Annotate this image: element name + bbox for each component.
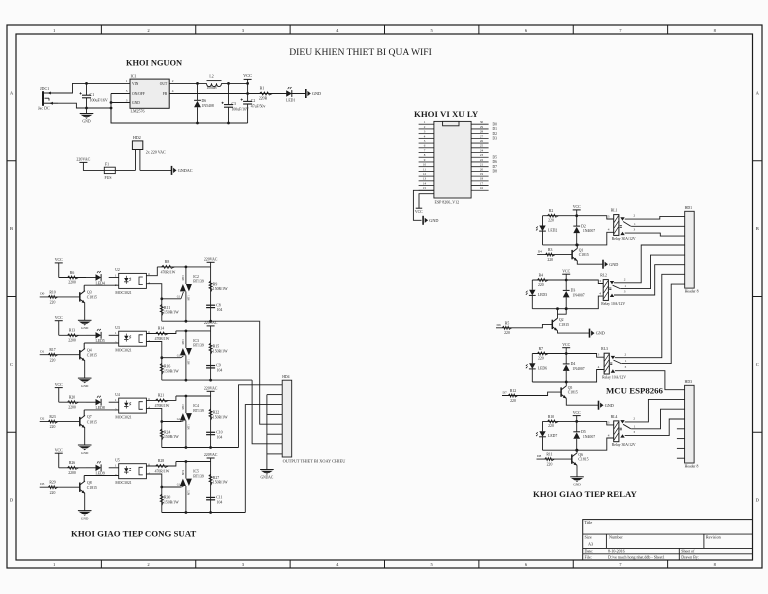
capacitor C2 47uF/50v bbox=[243, 100, 252, 102]
svg-text:C: C bbox=[756, 362, 759, 367]
svg-text:220: 220 bbox=[510, 399, 516, 403]
svg-text:C1815: C1815 bbox=[87, 486, 97, 490]
svg-text:LED4: LED4 bbox=[96, 281, 105, 285]
svg-text:D3: D3 bbox=[493, 137, 498, 141]
resistor R26 2200 bbox=[68, 466, 79, 469]
svg-text:LED6: LED6 bbox=[538, 366, 547, 370]
LED LED3 bbox=[531, 280, 533, 290]
wire RL1 common to HD1 bbox=[631, 225, 685, 227]
svg-text:18: 18 bbox=[480, 177, 484, 181]
optocoupler U3 MOC3021 bbox=[119, 331, 147, 346]
svg-text:D3: D3 bbox=[40, 482, 44, 486]
svg-text:17: 17 bbox=[480, 181, 484, 185]
wire RL2 pin3 to HD1 bbox=[614, 265, 685, 295]
pin 5 bbox=[419, 142, 434, 144]
connector HD3 bbox=[685, 385, 695, 463]
power ground GND bbox=[589, 329, 591, 338]
relay contact pin 3 bbox=[620, 434, 624, 437]
relay armature bbox=[613, 285, 621, 288]
svg-text:D2: D2 bbox=[40, 416, 44, 420]
pin 13 bbox=[419, 180, 434, 182]
svg-text:B: B bbox=[756, 226, 759, 231]
wire input rail bbox=[59, 334, 86, 336]
svg-text:R15: R15 bbox=[213, 345, 219, 349]
svg-text:IC4: IC4 bbox=[193, 404, 199, 408]
transistor Q2 C1815 bbox=[551, 320, 553, 329]
pin 4 bbox=[419, 137, 434, 139]
power ground GND bbox=[78, 377, 92, 379]
svg-text:4: 4 bbox=[172, 89, 174, 93]
svg-text:10: 10 bbox=[423, 163, 427, 167]
svg-text:D:\ve mach hong nhat.ddb - She: D:\ve mach hong nhat.ddb - Sheet1 bbox=[608, 554, 665, 559]
svg-text:GND: GND bbox=[82, 119, 90, 123]
svg-text:15: 15 bbox=[423, 186, 427, 190]
svg-text:VCC: VCC bbox=[243, 73, 252, 78]
svg-text:150R/1W: 150R/1W bbox=[164, 311, 179, 315]
pin 25 bbox=[471, 147, 489, 149]
svg-text:Header 8: Header 8 bbox=[685, 290, 699, 294]
power port VCC bbox=[55, 387, 63, 389]
wire input rail bbox=[59, 467, 86, 469]
svg-text:VCC: VCC bbox=[55, 448, 63, 452]
power ground GND bbox=[570, 476, 584, 478]
svg-text:Q1: Q1 bbox=[579, 248, 584, 252]
diode D6 1N5408 bbox=[197, 83, 199, 100]
pin 2 bbox=[419, 128, 434, 130]
svg-text:D6: D6 bbox=[493, 160, 498, 164]
svg-text:2200: 2200 bbox=[68, 281, 76, 285]
optocoupler U4 MOC3021 bbox=[119, 398, 147, 413]
svg-text:220VAC: 220VAC bbox=[204, 387, 218, 391]
power port VCC bbox=[562, 347, 570, 349]
svg-text:470R/1W: 470R/1W bbox=[155, 404, 170, 408]
svg-text:47uF/50v: 47uF/50v bbox=[251, 104, 266, 108]
capacitor C1 100uF/16V bbox=[86, 83, 88, 95]
pin 24 bbox=[471, 152, 489, 154]
connector JDC1 (Jac DC) bbox=[42, 91, 44, 106]
HD3 stub pins 5-8 bbox=[677, 428, 685, 430]
wire emitter to ground bbox=[558, 331, 590, 334]
svg-text:MOC3021: MOC3021 bbox=[115, 291, 131, 295]
svg-text:D6: D6 bbox=[497, 323, 501, 327]
svg-text:MT1: MT1 bbox=[187, 424, 190, 430]
resistor R30 150R/1W (gate) bbox=[161, 487, 163, 513]
transistor Q7 C1815 bbox=[79, 417, 81, 426]
svg-text:R4: R4 bbox=[539, 273, 544, 277]
svg-text:R17: R17 bbox=[49, 348, 55, 352]
svg-text:BT139: BT139 bbox=[193, 344, 204, 348]
wire emitter down bbox=[84, 493, 86, 510]
svg-text:G1: G1 bbox=[177, 417, 181, 421]
relay coil bottom wire bbox=[532, 296, 603, 309]
svg-text:G1: G1 bbox=[177, 294, 181, 298]
wire triac4 output to HD4 pin3 bbox=[245, 405, 282, 513]
svg-text:IC1: IC1 bbox=[131, 74, 137, 79]
svg-text:14: 14 bbox=[423, 181, 427, 185]
svg-text:MOC3021: MOC3021 bbox=[115, 349, 131, 353]
svg-text:Date:: Date: bbox=[585, 549, 594, 554]
transistor Q6 C1815 bbox=[571, 454, 573, 463]
svg-text:220: 220 bbox=[50, 358, 56, 362]
transistor Q3 C1815 bbox=[79, 292, 81, 301]
svg-text:VCC: VCC bbox=[415, 210, 423, 214]
svg-text:R11: R11 bbox=[546, 453, 552, 457]
svg-text:13: 13 bbox=[423, 177, 427, 181]
pin 30 bbox=[471, 123, 489, 125]
svg-text:R10: R10 bbox=[548, 415, 554, 419]
power ground GNDAC bbox=[171, 166, 173, 175]
svg-text:MT1: MT1 bbox=[187, 359, 190, 365]
capacitor C10 104 bbox=[206, 432, 215, 433]
pin 7 bbox=[419, 152, 434, 154]
svg-text:JDC1: JDC1 bbox=[40, 86, 49, 91]
connector HD2 2x 220 VAC bbox=[132, 141, 142, 150]
svg-text:GND: GND bbox=[605, 403, 614, 408]
svg-text:Size: Size bbox=[585, 534, 592, 539]
pin 8 bbox=[419, 156, 434, 158]
power ground GND under MCU bbox=[422, 216, 424, 225]
wire RL4 pin2 to HD3 bbox=[625, 399, 685, 422]
svg-text:16: 16 bbox=[480, 186, 484, 190]
relay coil bottom wire bbox=[543, 438, 614, 450]
svg-text:1: 1 bbox=[126, 79, 128, 83]
pin 6 bbox=[419, 147, 434, 149]
pin 20 bbox=[471, 170, 489, 172]
pin 12 bbox=[419, 175, 434, 177]
svg-text:MT2: MT2 bbox=[182, 275, 185, 281]
svg-text:220R: 220R bbox=[259, 96, 268, 100]
svg-text:File:: File: bbox=[585, 554, 592, 559]
svg-text:LED1: LED1 bbox=[286, 99, 295, 103]
optocoupler U2 MOC3021 bbox=[119, 273, 147, 288]
svg-text:LED5: LED5 bbox=[96, 339, 105, 343]
wire emitter down bbox=[84, 428, 86, 445]
wire RL3 common to HD1 bbox=[621, 284, 684, 364]
power ground GND after LED1 bbox=[305, 89, 307, 98]
svg-text:1: 1 bbox=[624, 284, 626, 288]
wire opto pin2 to Q collector bbox=[84, 342, 119, 344]
svg-text:LED2: LED2 bbox=[548, 229, 557, 233]
svg-text:C10: C10 bbox=[216, 430, 222, 434]
LED1 bbox=[286, 90, 292, 96]
svg-text:3: 3 bbox=[624, 289, 626, 293]
resistor R27 150R/1W (snubber) bbox=[210, 462, 212, 513]
resistor R12 220 (base) bbox=[502, 392, 561, 395]
wire opto pin2 to Q collector bbox=[84, 284, 119, 286]
wire RL4 common to HD3 bbox=[631, 409, 685, 429]
svg-text:BT139: BT139 bbox=[193, 409, 204, 413]
svg-text:5: 5 bbox=[126, 89, 128, 93]
pin 14 bbox=[419, 185, 434, 187]
resistor R29 220 (base) bbox=[40, 486, 80, 488]
power ground GND bbox=[78, 319, 92, 321]
svg-text:C2: C2 bbox=[251, 99, 256, 103]
svg-text:R22: R22 bbox=[213, 411, 219, 415]
wire collector bbox=[565, 382, 567, 386]
svg-text:MOC3021: MOC3021 bbox=[115, 416, 131, 420]
resistor R4 220 bbox=[537, 279, 548, 282]
svg-text:R2: R2 bbox=[549, 209, 554, 213]
svg-text:3: 3 bbox=[599, 279, 601, 283]
svg-text:U3: U3 bbox=[115, 326, 120, 330]
svg-text:150R/1W: 150R/1W bbox=[213, 287, 228, 291]
svg-text:R20: R20 bbox=[69, 396, 75, 400]
resistor R15 150R/1W (snubber) bbox=[210, 331, 212, 380]
svg-text:D1: D1 bbox=[40, 350, 44, 354]
svg-text:R29: R29 bbox=[49, 481, 55, 485]
pin 17 bbox=[471, 185, 489, 187]
svg-text:20: 20 bbox=[480, 167, 484, 171]
svg-text:1N5408: 1N5408 bbox=[202, 104, 214, 108]
svg-text:26: 26 bbox=[480, 139, 484, 143]
svg-text:BT139: BT139 bbox=[193, 280, 204, 284]
svg-text:2200: 2200 bbox=[68, 471, 76, 475]
svg-text:Drawn By:: Drawn By: bbox=[681, 554, 699, 559]
svg-text:LED3: LED3 bbox=[538, 293, 547, 297]
svg-text:220: 220 bbox=[548, 219, 554, 223]
svg-text:220: 220 bbox=[504, 331, 510, 335]
svg-text:GND: GND bbox=[596, 331, 605, 336]
wire emitter down bbox=[84, 361, 86, 378]
capacitor C9 104 bbox=[206, 365, 215, 366]
svg-text:220: 220 bbox=[50, 491, 56, 495]
svg-text:LED7: LED7 bbox=[548, 434, 557, 438]
svg-text:C11: C11 bbox=[216, 496, 222, 500]
svg-text:GND: GND bbox=[312, 91, 321, 96]
svg-text:220: 220 bbox=[50, 301, 56, 305]
svg-text:LM2576: LM2576 bbox=[131, 109, 145, 114]
svg-text:2: 2 bbox=[172, 79, 174, 83]
pin 19 bbox=[471, 175, 489, 177]
svg-text:D7: D7 bbox=[493, 165, 498, 169]
LED LED9 bbox=[96, 465, 102, 471]
resistor R11 220 (base) bbox=[537, 458, 572, 460]
wire emitter to ground bbox=[566, 398, 598, 405]
diode D2 1N4007 bbox=[576, 216, 578, 226]
svg-text:R13: R13 bbox=[69, 329, 75, 333]
LED LED7 bbox=[542, 421, 544, 431]
wire RL4 pin3 to HD3 bbox=[625, 419, 685, 436]
svg-text:D5: D5 bbox=[493, 155, 498, 159]
svg-text:HD3: HD3 bbox=[685, 380, 692, 384]
wire HD2 to GNDAC bbox=[140, 169, 172, 171]
wire emitter down bbox=[84, 303, 86, 320]
power port VCC bbox=[573, 415, 581, 417]
relay channel 1 top rail wire bbox=[543, 216, 614, 219]
wire bottom rail bbox=[162, 379, 252, 381]
svg-text:C: C bbox=[10, 362, 13, 367]
pin 16 bbox=[471, 189, 489, 191]
svg-text:C1815: C1815 bbox=[87, 354, 97, 358]
svg-text:R8: R8 bbox=[165, 260, 170, 264]
svg-text:C8: C8 bbox=[216, 303, 221, 307]
resistor R20 2200 bbox=[68, 401, 79, 404]
relay contact pin 2 bbox=[610, 281, 614, 284]
svg-text:D4: D4 bbox=[538, 250, 542, 254]
svg-text:IC2: IC2 bbox=[193, 275, 199, 279]
power port VCC bbox=[573, 209, 581, 211]
svg-text:GND: GND bbox=[81, 516, 89, 520]
resistor R11 150R/1W (gate) bbox=[161, 299, 163, 321]
wire pin16 to VCC bbox=[419, 194, 434, 209]
resistor R8 470R/1W bbox=[162, 265, 175, 268]
svg-text:GNDAC: GNDAC bbox=[261, 475, 274, 479]
svg-text:RL2: RL2 bbox=[600, 274, 607, 278]
triac IC2 BT139 bbox=[185, 267, 187, 284]
svg-text:C1: C1 bbox=[90, 92, 95, 97]
svg-text:HD4: HD4 bbox=[282, 375, 289, 379]
power ground GND bbox=[598, 401, 600, 410]
resistor R24 150R/1W (gate) bbox=[161, 422, 163, 448]
svg-text:RL4: RL4 bbox=[611, 415, 618, 419]
transistor Q1 C1815 bbox=[571, 250, 573, 259]
resistor R14 470R/1W bbox=[156, 332, 169, 335]
resistor R28 470R/1W bbox=[156, 465, 169, 468]
svg-text:U5: U5 bbox=[115, 459, 120, 463]
resistor R23 220 (base) bbox=[40, 421, 80, 423]
svg-text:Relay 10A/12V: Relay 10A/12V bbox=[602, 375, 626, 379]
power ground GNDAC bbox=[260, 469, 274, 471]
pin 29 bbox=[471, 128, 489, 130]
svg-text:30: 30 bbox=[480, 120, 484, 124]
svg-text:R16: R16 bbox=[164, 365, 170, 369]
svg-text:MCU ESP8266: MCU ESP8266 bbox=[606, 386, 664, 396]
wire RL2 pin2 to HD1 bbox=[614, 245, 685, 283]
svg-text:29: 29 bbox=[480, 125, 484, 129]
capacitor C8 104 bbox=[206, 305, 215, 306]
svg-text:150R/1W: 150R/1W bbox=[213, 349, 228, 353]
svg-text:OUTPUT THIET BI XOAY CHIEU: OUTPUT THIET BI XOAY CHIEU bbox=[283, 459, 347, 464]
svg-text:MT2: MT2 bbox=[182, 469, 185, 475]
relay channel 3 top rail wire bbox=[532, 354, 604, 358]
svg-text:220: 220 bbox=[538, 283, 544, 287]
svg-text:Q8: Q8 bbox=[87, 481, 92, 485]
resistor R3 220 (base) bbox=[537, 254, 572, 256]
LED LED5 bbox=[96, 332, 102, 338]
wire triac1 output to HD4 pin5 bbox=[259, 321, 282, 424]
svg-text:U2: U2 bbox=[115, 268, 120, 272]
wire emitter to ground bbox=[577, 261, 603, 264]
svg-text:1N4007: 1N4007 bbox=[572, 367, 584, 371]
svg-text:100uH: 100uH bbox=[206, 86, 217, 90]
svg-text:Relay 30A/12V: Relay 30A/12V bbox=[612, 237, 636, 241]
svg-text:D6: D6 bbox=[202, 99, 207, 103]
pin 27 bbox=[471, 137, 489, 139]
svg-text:Number: Number bbox=[609, 534, 623, 539]
wire opto pin4 to gate bbox=[146, 408, 181, 421]
svg-text:VIN: VIN bbox=[132, 82, 139, 86]
pin 23 bbox=[471, 156, 489, 158]
svg-text:G1: G1 bbox=[177, 483, 181, 487]
wire input rail bbox=[59, 401, 86, 403]
svg-text:R27: R27 bbox=[213, 476, 219, 480]
relay RL2 bbox=[603, 280, 608, 301]
pin 21 bbox=[471, 166, 489, 168]
svg-text:KHOI GIAO TIEP RELAY: KHOI GIAO TIEP RELAY bbox=[533, 489, 638, 499]
svg-text:104: 104 bbox=[217, 308, 223, 312]
svg-text:D2: D2 bbox=[493, 132, 498, 136]
svg-text:OUT: OUT bbox=[160, 82, 168, 86]
wire emitter to ground bbox=[576, 465, 578, 477]
svg-text:100uF/16V: 100uF/16V bbox=[90, 98, 108, 103]
power port VCC bbox=[55, 452, 63, 454]
svg-text:VCC: VCC bbox=[562, 269, 570, 273]
svg-text:3: 3 bbox=[634, 228, 636, 232]
svg-text:B: B bbox=[10, 226, 13, 231]
svg-text:G1: G1 bbox=[177, 353, 181, 357]
svg-text:F1: F1 bbox=[105, 163, 109, 167]
svg-text:470R/1W: 470R/1W bbox=[161, 270, 176, 274]
wire collector bbox=[576, 450, 578, 453]
relay RL1 bbox=[614, 215, 619, 236]
svg-text:Q6: Q6 bbox=[578, 453, 583, 457]
power port VCC bbox=[55, 320, 63, 322]
relay channel 2 top rail wire bbox=[532, 280, 603, 284]
LED LED6 bbox=[531, 354, 533, 364]
triac IC3 BT139 bbox=[185, 331, 187, 348]
svg-text:R21: R21 bbox=[158, 394, 164, 398]
wire FB rail bbox=[169, 93, 306, 95]
svg-text:3: 3 bbox=[608, 214, 610, 218]
svg-text:23: 23 bbox=[480, 153, 484, 157]
wire RL1 pin2 to HD1 bbox=[625, 216, 685, 219]
relay armature bbox=[614, 360, 622, 364]
resistor R7 220 bbox=[537, 352, 548, 355]
svg-text:D5: D5 bbox=[581, 430, 586, 434]
MCU U1 ESP 8266_V12 bbox=[434, 121, 471, 198]
svg-text:104: 104 bbox=[217, 369, 223, 373]
wire JDC1 pin1 to VIN bbox=[51, 83, 130, 93]
wire opto pin4 to gate bbox=[146, 474, 181, 487]
svg-text:KHOI NGUON: KHOI NGUON bbox=[126, 59, 182, 68]
relay contact pin 3 bbox=[620, 232, 624, 235]
diode D4 1N4007 bbox=[565, 354, 567, 364]
svg-text:Q3: Q3 bbox=[87, 291, 92, 295]
resistor R9 150R/1W (snubber) bbox=[210, 267, 212, 321]
svg-text:IC3: IC3 bbox=[193, 339, 199, 343]
svg-text:4: 4 bbox=[599, 292, 601, 296]
power port VCC bbox=[244, 78, 252, 80]
svg-text:VCC: VCC bbox=[562, 343, 570, 347]
svg-text:220: 220 bbox=[547, 463, 553, 467]
svg-text:470R/1W: 470R/1W bbox=[155, 337, 170, 341]
wire bottom rail bbox=[162, 512, 246, 514]
transistor Q4 C1815 bbox=[79, 350, 81, 359]
resistor R6 2200 bbox=[68, 276, 79, 279]
svg-text:D4: D4 bbox=[571, 362, 576, 366]
svg-text:2200: 2200 bbox=[68, 405, 76, 409]
svg-text:GND: GND bbox=[81, 326, 89, 330]
wire opto pin2 to Q collector bbox=[84, 409, 119, 411]
title block bbox=[583, 520, 753, 560]
svg-text:2: 2 bbox=[625, 352, 627, 356]
svg-text:11: 11 bbox=[423, 167, 426, 171]
svg-text:8-10-2016: 8-10-2016 bbox=[608, 549, 625, 554]
svg-text:R1: R1 bbox=[260, 86, 265, 90]
svg-text:R6: R6 bbox=[70, 271, 75, 275]
svg-text:2x 220 VAC: 2x 220 VAC bbox=[146, 150, 166, 155]
svg-text:28: 28 bbox=[480, 130, 484, 134]
svg-text:R9: R9 bbox=[213, 282, 218, 286]
svg-text:HD2: HD2 bbox=[133, 135, 141, 140]
svg-text:3: 3 bbox=[633, 430, 635, 434]
svg-text:C1815: C1815 bbox=[578, 458, 588, 462]
svg-text:D8: D8 bbox=[493, 170, 498, 174]
svg-text:1: 1 bbox=[634, 222, 636, 226]
svg-text:12: 12 bbox=[423, 172, 427, 176]
svg-text:FUS: FUS bbox=[105, 176, 112, 180]
resistor R16 150R/1W (gate) bbox=[161, 358, 163, 380]
